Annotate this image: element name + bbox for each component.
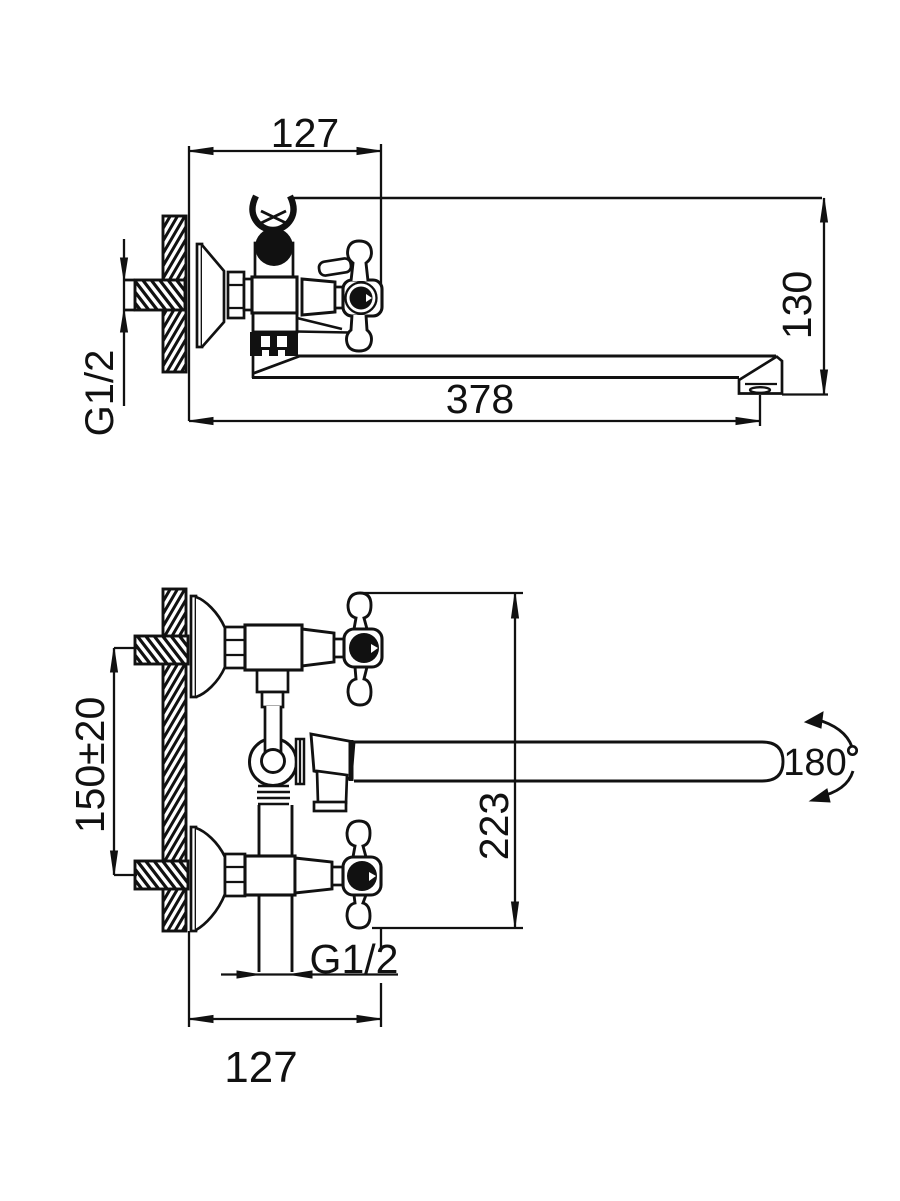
svg-text:180: 180 <box>783 742 846 784</box>
svg-text:G1/2: G1/2 <box>78 350 122 437</box>
svg-text:223: 223 <box>471 792 517 860</box>
svg-text:127: 127 <box>271 110 339 156</box>
svg-text:378: 378 <box>446 376 514 422</box>
svg-text:130: 130 <box>774 271 820 339</box>
svg-text:150±20: 150±20 <box>67 697 113 834</box>
svg-text:127: 127 <box>224 1043 297 1092</box>
svg-text:G1/2: G1/2 <box>310 936 399 982</box>
